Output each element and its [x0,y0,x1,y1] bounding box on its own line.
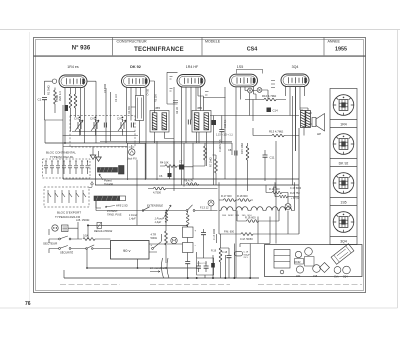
svg-text:R1 3MΩ: R1 3MΩ [47,85,51,95]
svg-text:4.TR: 4.TR [151,233,157,237]
sheet outer border [34,38,366,293]
wire diodes [245,87,268,100]
chassis tube b [296,266,303,273]
svg-text:MODELE: MODELE [205,40,221,44]
wire verticals mid [157,87,232,187]
svg-text:Jack P.U.: Jack P.U. [127,157,138,161]
chassis IF can dividers [274,256,290,262]
padding cap c4 [62,162,66,175]
svg-text:C3 5000: C3 5000 [104,83,107,93]
rheostat body [165,212,168,223]
resistor R56 [83,238,95,241]
wire gnd stem [92,147,94,155]
wire switch row [96,201,186,211]
speaker HP horn [316,114,325,132]
wire V3 plate jog [198,87,204,111]
wire C20 [203,229,205,248]
chassis part box a [295,259,304,265]
wire R19 [220,234,222,278]
chassis IF can footprint [274,250,290,269]
padding cap c7 [80,162,84,175]
bottom scan smudge line [60,284,362,286]
socket S4 3Q4 [333,212,354,233]
svg-text:R6 1M: R6 1M [176,107,179,114]
svg-text:+ 67,5V: + 67,5V [291,197,300,200]
box above V4 [237,69,263,73]
key switch k1 [48,190,51,203]
filament coil V2 [236,207,248,211]
svg-text:R4 10K: R4 10K [160,161,169,165]
capacitor C6 block [168,173,172,177]
svg-text:1R4 HF: 1R4 HF [186,65,199,69]
svg-text:1,4μF: 1,4μF [155,220,162,224]
svg-text:C.15 5000: C.15 5000 [290,187,302,190]
wire R9 [148,188,172,190]
IF2 can box [192,111,211,133]
wire x213 [212,255,214,278]
svg-text:R.19: R.19 [211,250,217,253]
wire PM600 [219,211,299,235]
pickup jack inner [130,145,134,154]
svg-text:POTENT.: POTENT. [107,209,118,213]
switch lever bottom b [167,258,169,278]
rheostat [163,205,171,219]
svg-text:R13 4,7MΩ: R13 4,7MΩ [269,130,283,134]
tube V1 1R4 [59,75,87,88]
switch SW4 lever [188,205,193,210]
resistor R18 [239,199,251,202]
cell cap 2 [204,266,209,268]
circled A stem [210,201,213,210]
chassis hole small [280,270,284,274]
wire SW2 to battery [49,249,111,254]
circled A jack [208,200,214,206]
svg-text:1R4: 1R4 [340,123,346,127]
chassis tube e [334,267,341,274]
svg-text:C4 50: C4 50 [147,88,150,95]
wire bus y115.5 [210,115,299,117]
capacitor C18b [185,262,190,264]
wire R13 line [253,100,304,136]
output transformer TR primary [301,111,306,128]
capacitor C2 block [65,105,69,111]
wire left rail to bus [63,136,96,186]
chassis tuning gang [331,244,354,265]
capacitor C14 [267,108,272,113]
svg-text:1S5: 1S5 [313,275,318,278]
padding caps dashed box [43,159,91,178]
capacitor C1 [42,98,47,100]
svg-text:R.16 600: R.16 600 [245,216,256,220]
padding caps top dots [46,160,88,162]
svg-text:1,5MΩ: 1,5MΩ [56,95,59,102]
wire pickup riser [136,160,138,225]
svg-text:R.16 600: R.16 600 [269,187,280,191]
wire battery riser [161,234,163,242]
trimmer top dots [79,117,124,119]
wire 3Q4 pins [286,87,305,152]
svg-text:C.17 2000: C.17 2000 [213,228,216,240]
wire battery right [149,244,183,252]
wire bus y243.5 [240,217,270,248]
svg-text:R8 4,7K: R8 4,7K [184,179,194,183]
wire C10 riser [213,116,215,186]
osc coil windings [138,98,142,119]
IF1 primary coil [152,113,157,130]
svg-text:int. combiné: int. combiné [150,266,166,270]
svg-text:CONSTRUCTEUR: CONSTRUCTEUR [117,40,148,44]
switch SW1 pole [59,238,61,240]
wire risers right [275,141,277,244]
pot P2 bracket [96,201,101,209]
svg-text:R15 1MΩ: R15 1MΩ [240,143,244,154]
header bottom rule [34,56,366,57]
svg-text:DK 92: DK 92 [339,162,349,166]
wire V3 pins down [174,87,201,191]
circled M motor [171,237,177,243]
socket S2 DK92 [333,134,354,155]
svg-text:455: 455 [155,106,160,110]
wire filament row [219,182,295,234]
speaker HP box [312,118,316,127]
wire gnd2 stem [98,151,100,157]
diode plate D2 circle [257,88,262,93]
resistor R10 [264,98,276,101]
filament coil V5 [280,207,292,211]
rheostat dot [166,210,168,212]
pickup jack M [129,149,135,155]
wire cell risers [199,261,207,278]
wire C15 R20 [275,182,299,196]
wire R5 [193,143,205,166]
svg-text:455: 455 [197,106,202,110]
potentiometer P2 box [94,196,120,201]
key switch k4 [69,190,72,203]
wire R15 [247,143,249,191]
wire E blocks [187,211,189,262]
capacitor C15 [274,187,276,192]
svg-text:1R4 es: 1R4 es [67,65,79,69]
svg-text:ANNEE: ANNEE [328,40,341,44]
barretter diag [97,222,102,228]
wire R21 [266,185,288,204]
header divider 2 [201,38,203,56]
wire C18 [221,248,230,278]
wire selector right [68,222,78,239]
svg-text:HP: HP [317,132,321,136]
scan page right edge line [397,30,399,309]
tube V4 1S5 [230,74,258,87]
resistor R19 vertical [219,248,222,262]
svg-text:R.20 750: R.20 750 [290,192,300,195]
wire V1 pins down [65,88,85,144]
svg-text:R7 2MΩ: R7 2MΩ [209,157,213,167]
svg-text:R2 40K: R2 40K [128,106,131,114]
svg-text:C.18: C.18 [222,251,228,254]
mains plug pin 2 [56,227,57,228]
svg-text:TYPE(S) RG2-RL: TYPE(S) RG2-RL [50,155,74,159]
socket chart column box [330,89,357,245]
padder capacitor Cp1 [104,123,106,128]
wire bus left riser [64,249,87,279]
transformer top wires [300,108,308,111]
svg-text:TECHNIFRANCE: TECHNIFRANCE [134,47,184,53]
scan page top edge line [0,29,400,31]
coil L2 under V1 [74,94,77,108]
wire V1 grid to left [44,81,52,95]
wire C18b [187,264,189,278]
wire 1S5 grid line [203,92,226,98]
resistor R21 [272,191,282,194]
battery bottom drop [137,259,139,268]
tube V2 DK92 [122,75,150,88]
B plus rail corner [298,128,300,234]
resistor R5 vertical [204,146,207,160]
capacitor C9 [219,130,224,132]
IF2 secondary coil [204,113,209,130]
svg-text:1S5: 1S5 [237,65,243,69]
filament coil V4 [266,207,278,211]
diode D1 cross [248,89,251,92]
svg-text:1 Fond: 1 Fond [129,213,138,217]
switch SW1 contact [69,238,71,240]
IF1 can box [150,111,169,133]
voltage selector lines [63,227,68,230]
bottom bus y268 [87,267,197,269]
svg-text:F.13 12: F.13 12 [200,206,209,210]
battery lever [153,242,161,248]
padding cap c2 [50,162,54,175]
wire bus y135.5 [63,135,139,137]
wire transformer to speaker [309,113,313,124]
key switch k3 [62,190,65,203]
wire C11 [264,150,266,181]
resistor R9 [154,187,166,190]
svg-text:SECTEUR: SECTEUR [43,242,58,246]
keyboard dashed box [44,187,89,207]
svg-text:C.M. 50/50: C.M. 50/50 [240,237,253,241]
shield pin marks [170,77,179,103]
shield box V3 [167,72,178,104]
padder capacitor Cp2 [131,123,133,128]
wire V1 plate right [87,81,96,143]
output transformer TR secondary [306,111,311,128]
arrow pot tonalite [99,174,103,180]
chassis tube a [295,251,301,257]
scan page bottom edge line [0,307,398,309]
switch SW2b poles [86,248,88,250]
coil L1 under V1 [69,94,72,108]
pilot lamp cross [286,204,290,208]
resistor R15 vertical [246,146,249,160]
blob cap x213 [211,263,215,268]
node dot y225 [87,224,89,226]
dashed tuning block box [70,116,135,148]
wire riser x203 [203,248,205,258]
wire RTR [165,211,167,263]
chassis diamond [320,263,330,273]
IF2 primary coil [194,113,199,130]
wire resistor row [219,199,253,201]
wire riser x219 [216,234,225,278]
wire riser x250 [249,244,251,279]
IF1 secondary coil [162,113,167,130]
key switch k6 [83,190,86,203]
resistor R17 [224,199,236,202]
diode D2 cross [258,88,261,91]
padding cap c6 [74,162,78,175]
ground under block [90,155,96,159]
AVC bus [45,142,232,144]
capacitor C11 [263,155,268,157]
header divider 3 [323,38,325,56]
pickup box [127,143,145,180]
svg-text:CVs: CVs [334,276,339,279]
filament coil V3 [251,207,263,211]
svg-text:C6: C6 [159,174,163,178]
svg-text:C.RDV 7/5: C.RDV 7/5 [218,139,222,152]
cell cap 1 [196,266,201,268]
svg-text:HPS 2,5Ω: HPS 2,5Ω [116,204,128,208]
wire left drop [45,105,63,143]
svg-text:1R4: 1R4 [296,275,301,278]
barretter regulatrice [97,222,102,228]
potentiometer P1 box [98,168,118,173]
switch SW2 pole [59,248,61,250]
wire switch row right [195,210,218,212]
svg-text:CS4: CS4 [247,46,258,52]
wire 3Q4 left drop [293,87,296,185]
resistor RD vertical [186,213,189,226]
wire riser x234 [233,244,235,279]
padding cap c3 [56,162,60,175]
main ground bus y278 [64,277,259,279]
padding cap c5 [68,162,72,175]
ground 2 [96,157,102,161]
two cap cell box [197,258,214,275]
resistor R4 [165,165,177,168]
switch lever bottom a [161,258,163,278]
arrow HP [105,206,115,208]
svg-text:0,5A: 0,5A [83,234,89,238]
oscillator coil box [136,96,144,121]
padding cap c1 [44,162,48,175]
svg-text:C1: C1 [38,98,42,102]
scan gutter shadow left [29,32,31,305]
chassis layout box [265,245,363,277]
capacitor C8 [235,151,237,156]
svg-text:Tonalité: Tonalité [104,182,114,186]
svg-text:R.18 600: R.18 600 [237,194,248,198]
capacitor C18 [227,256,232,258]
pot P2 hatch [96,196,118,201]
mid bus A [63,178,299,180]
mid bus C [172,188,218,190]
switch SW4 contact [193,210,195,212]
svg-text:500Ω: 500Ω [151,236,157,240]
trimmer CV3 [118,119,126,132]
resistor PM600 [241,233,253,236]
switch SW1 lever [60,236,68,239]
arrow int combine [150,271,160,273]
mid bus B [95,184,299,186]
capacitor C5 [188,120,190,125]
AVC bus lower [63,146,127,148]
socket S1 1R4 [333,95,354,116]
voltage selector box [62,225,69,232]
resistor R7 vertical [215,159,218,173]
trimmer CV1 [75,119,83,132]
feedback ticks [271,81,275,88]
switch SW3 lever [144,207,150,210]
svg-text:76: 76 [25,301,31,307]
resistor R16 bypass [247,220,259,223]
resistor RTR vertical [165,231,168,245]
wire R1 [54,88,56,114]
wire R7 [213,155,217,185]
svg-text:R10 4,7MΩ: R10 4,7MΩ [262,94,276,98]
chassis tube f [343,266,351,274]
wire tube2 left pins [106,88,111,143]
mains plug pins [53,227,54,228]
filament coil V1 [221,207,233,211]
tube V5 3Q4 [281,74,309,87]
bus y225 [88,225,188,227]
socket S3 1S5 [333,173,354,194]
wire SW1 to battery [49,229,111,243]
switch SW2 contact [69,248,71,250]
tube V3 1R4 HF [177,75,205,88]
trimmer CV2 [91,119,99,132]
svg-text:25 V: 25 V [244,257,249,259]
circled M glyph [172,239,175,242]
pilot lamp [285,204,291,210]
svg-text:TAND. PUIS.: TAND. PUIS. [107,213,122,217]
wire IF1 bottom [155,132,175,143]
node dot A [64,142,66,144]
svg-text:N° 936: N° 936 [72,45,91,51]
header divider 1 [112,38,114,56]
resistor R1 [54,90,57,104]
svg-text:DK 92: DK 92 [130,65,141,69]
wire IF2 bottom [197,132,207,166]
svg-text:C11: C11 [270,156,275,160]
svg-text:BLOC D'EXPORT: BLOC D'EXPORT [57,211,81,215]
wire C9 [221,116,223,144]
svg-text:C12 0,1: C12 0,1 [224,119,227,128]
wire V2 plate to IF1 [150,81,155,113]
svg-text:4,7500: 4,7500 [153,191,161,195]
chassis tube d [313,265,321,273]
key switch k2 [55,190,58,203]
electrolytic block E1 [183,227,194,238]
switch SW2b contact [92,248,94,250]
svg-text:90 v: 90 v [123,248,131,253]
chassis tube c [305,248,313,256]
wire riser x196 [196,252,198,268]
key switch k5 [76,190,79,203]
wire V2 pins down [127,87,147,179]
V1 grid cap circle [52,79,56,83]
sheet inner border [36,40,364,291]
capacitor C20 [201,233,206,235]
wire R16 loop [237,211,279,222]
pot P1 hatch [99,168,113,173]
wire dot riser [87,225,89,239]
wire trimmer bus [72,132,135,136]
switch SW2b lever [87,245,94,248]
svg-text:C3 110: C3 110 [115,94,118,102]
